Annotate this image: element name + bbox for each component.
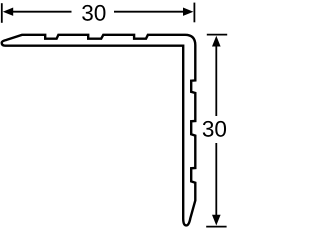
top dimension text 30 [82,5,105,21]
top dimension: left extension tick [1,3,3,23]
top dimension: right extension tick [193,3,195,23]
right dimension: top extension tick [207,34,227,36]
top dimension right arrowhead [183,8,193,16]
top dimension left arrowhead [3,8,13,16]
right dimension text 30 [203,121,226,137]
profile outline (30x30 angle profile cross-section) [2,35,196,226]
right dimension line, lower segment [215,143,217,216]
top dimension line, right segment [114,11,187,13]
right dimension lower arrowhead [212,215,221,226]
top dimension line, left segment [10,11,72,13]
right dimension line, upper segment [215,45,217,116]
right dimension: bottom extension tick [206,226,226,228]
right dimension upper arrowhead [212,36,221,47]
